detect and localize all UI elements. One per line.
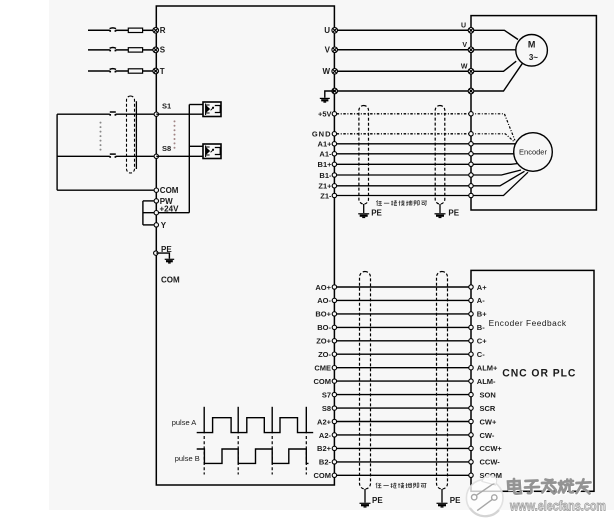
svg-text:CCW-: CCW- [480, 458, 501, 467]
svg-text:A-: A- [477, 296, 485, 305]
svg-text:M: M [528, 40, 536, 50]
svg-text:S8: S8 [322, 404, 331, 413]
svg-text:W: W [461, 63, 468, 70]
svg-text:B1-: B1- [319, 171, 332, 180]
svg-text:pulse A: pulse A [172, 418, 197, 427]
svg-text:CW-: CW- [480, 431, 495, 440]
svg-text:Z1-: Z1- [320, 191, 332, 200]
svg-text:B1+: B1+ [318, 160, 333, 169]
svg-text:PE: PE [371, 209, 382, 218]
svg-text:S8: S8 [162, 144, 171, 153]
svg-text:CW+: CW+ [480, 417, 497, 426]
svg-text:COM: COM [161, 276, 180, 285]
svg-text:S7: S7 [322, 390, 331, 399]
svg-text:COM: COM [314, 471, 332, 480]
svg-text:C-: C- [477, 350, 485, 359]
svg-text:A1-: A1- [319, 150, 332, 159]
svg-text:CNC OR PLC: CNC OR PLC [502, 367, 576, 379]
svg-text:ZO+: ZO+ [316, 337, 331, 346]
svg-text:PE: PE [450, 496, 461, 505]
svg-text:COM: COM [314, 377, 332, 386]
svg-text:ZO-: ZO- [318, 350, 331, 359]
svg-text:Encoder Feedback: Encoder Feedback [489, 319, 568, 328]
svg-text:V: V [462, 42, 467, 49]
svg-text:B+: B+ [477, 310, 487, 319]
svg-text:A2-: A2- [319, 431, 332, 440]
svg-text:A2+: A2+ [317, 417, 332, 426]
svg-text:PE: PE [372, 496, 383, 505]
svg-text:A+: A+ [477, 283, 487, 292]
svg-text:R: R [160, 26, 166, 35]
svg-text:B2-: B2- [319, 458, 332, 467]
svg-text:B2+: B2+ [317, 444, 332, 453]
svg-text:AO+: AO+ [315, 283, 331, 292]
svg-text:V: V [325, 46, 331, 55]
svg-text:BO+: BO+ [315, 310, 331, 319]
svg-text:CME: CME [314, 364, 331, 373]
svg-text:PE: PE [448, 209, 459, 218]
svg-text:www.elecfans.com: www.elecfans.com [509, 499, 606, 514]
svg-text:ALM-: ALM- [477, 377, 496, 386]
svg-text:+5V: +5V [318, 110, 332, 119]
svg-text:+24V: +24V [160, 205, 180, 214]
svg-text:3~: 3~ [529, 53, 538, 62]
svg-text:GND: GND [312, 130, 332, 139]
svg-text:SON: SON [480, 390, 496, 399]
svg-text:Encoder: Encoder [519, 148, 547, 157]
svg-text:S1: S1 [162, 102, 171, 111]
svg-text:BO-: BO- [317, 323, 331, 332]
svg-text:ALM+: ALM+ [477, 364, 498, 373]
svg-text:COM: COM [160, 186, 179, 195]
svg-text:pulse B: pulse B [175, 454, 200, 463]
svg-text:B-: B- [477, 323, 485, 332]
svg-text:Y: Y [161, 221, 167, 230]
svg-text:U: U [324, 26, 330, 35]
svg-text:S: S [160, 46, 166, 55]
svg-text:W: W [322, 67, 330, 76]
svg-text:U: U [461, 22, 466, 29]
svg-text:CCW+: CCW+ [480, 444, 503, 453]
svg-text:SCR: SCR [480, 404, 496, 413]
svg-text:Z1+: Z1+ [318, 182, 332, 191]
svg-text:C+: C+ [477, 337, 487, 346]
svg-text:T: T [160, 67, 165, 76]
svg-text:AO-: AO- [317, 296, 331, 305]
svg-text:A1+: A1+ [318, 140, 333, 149]
